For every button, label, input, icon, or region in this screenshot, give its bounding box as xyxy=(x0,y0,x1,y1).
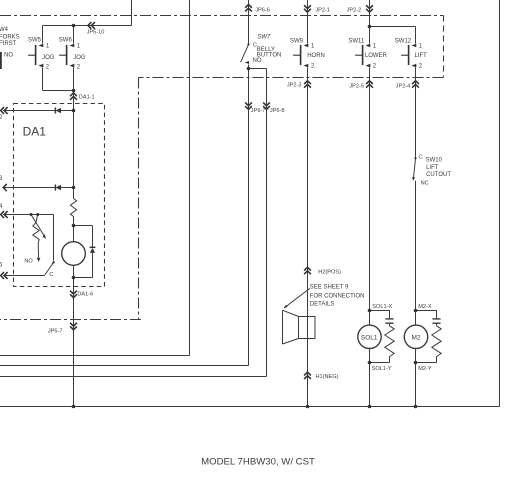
svg-text:SEE SHEET 9: SEE SHEET 9 xyxy=(310,284,349,290)
svg-text:FORKS: FORKS xyxy=(0,35,20,41)
svg-text:JP2-2: JP2-2 xyxy=(347,7,362,13)
svg-text:H2(POS): H2(POS) xyxy=(318,269,341,275)
svg-text:JP6-7: JP6-7 xyxy=(251,108,266,114)
svg-text:JP6-6: JP6-6 xyxy=(255,7,270,13)
svg-text:DA1-1: DA1-1 xyxy=(79,94,95,100)
svg-text:JP6-8: JP6-8 xyxy=(270,108,285,114)
svg-text:SOL1: SOL1 xyxy=(361,335,378,342)
svg-text:CUTOUT: CUTOUT xyxy=(426,172,451,178)
svg-text:SOL1-Y: SOL1-Y xyxy=(372,366,392,372)
svg-text:SW5: SW5 xyxy=(28,38,42,44)
svg-text:M2: M2 xyxy=(412,335,421,342)
svg-text:1: 1 xyxy=(311,43,315,49)
svg-text:JP2-4: JP2-4 xyxy=(396,83,411,89)
svg-text:C: C xyxy=(49,272,53,278)
svg-text:JOG: JOG xyxy=(73,55,86,61)
svg-text:FIRST: FIRST xyxy=(0,41,17,47)
svg-text:SW6: SW6 xyxy=(59,38,73,44)
svg-text:NO: NO xyxy=(4,53,13,59)
svg-text:2: 2 xyxy=(77,64,81,70)
svg-text:NC: NC xyxy=(421,181,429,187)
svg-text:DETAILS: DETAILS xyxy=(310,302,335,308)
svg-text:H1(NEG): H1(NEG) xyxy=(316,374,339,380)
svg-text:NO: NO xyxy=(253,58,262,64)
svg-text:M2-Y: M2-Y xyxy=(418,366,432,372)
svg-text:JP2-3: JP2-3 xyxy=(287,82,302,88)
svg-text:2: 2 xyxy=(419,64,423,70)
svg-text:LIFT: LIFT xyxy=(426,165,439,171)
svg-text:1: 1 xyxy=(77,44,81,50)
svg-text:JOG: JOG xyxy=(42,55,55,61)
svg-text:4: 4 xyxy=(0,204,3,210)
svg-text:MODEL 7HBW30, W/ CST: MODEL 7HBW30, W/ CST xyxy=(201,457,315,468)
svg-text:C: C xyxy=(419,154,423,160)
svg-text:2: 2 xyxy=(46,64,50,70)
svg-text:2: 2 xyxy=(373,64,377,70)
svg-text:JP5-7: JP5-7 xyxy=(48,328,63,334)
svg-text:LIFT: LIFT xyxy=(415,53,428,59)
svg-text:JP2-1: JP2-1 xyxy=(315,7,330,13)
svg-text:LOWER: LOWER xyxy=(365,53,388,59)
svg-text:JP5-10: JP5-10 xyxy=(87,29,105,35)
svg-text:SW7: SW7 xyxy=(257,34,271,40)
svg-text:1: 1 xyxy=(419,43,423,49)
svg-text:FOR CONNECTION: FOR CONNECTION xyxy=(310,294,365,300)
svg-text:SW9: SW9 xyxy=(290,39,304,45)
svg-text:5: 5 xyxy=(0,263,3,269)
svg-text:1: 1 xyxy=(373,43,377,49)
svg-text:NO: NO xyxy=(24,259,33,265)
svg-text:W4: W4 xyxy=(0,27,9,33)
svg-text:DA1-6: DA1-6 xyxy=(77,292,93,298)
svg-text:SW10: SW10 xyxy=(426,158,443,164)
svg-text:HORN: HORN xyxy=(307,53,325,59)
svg-text:M2-X: M2-X xyxy=(418,304,432,310)
svg-text:1: 1 xyxy=(46,44,50,50)
svg-text:3: 3 xyxy=(0,176,3,182)
svg-text:SW12: SW12 xyxy=(395,39,412,45)
svg-text:SW11: SW11 xyxy=(348,39,365,45)
svg-text:SOL1-X: SOL1-X xyxy=(372,304,392,310)
svg-text:2: 2 xyxy=(311,64,315,70)
svg-text:JP2-5: JP2-5 xyxy=(349,83,364,89)
svg-text:2: 2 xyxy=(0,115,3,121)
svg-text:DA1: DA1 xyxy=(23,125,47,139)
